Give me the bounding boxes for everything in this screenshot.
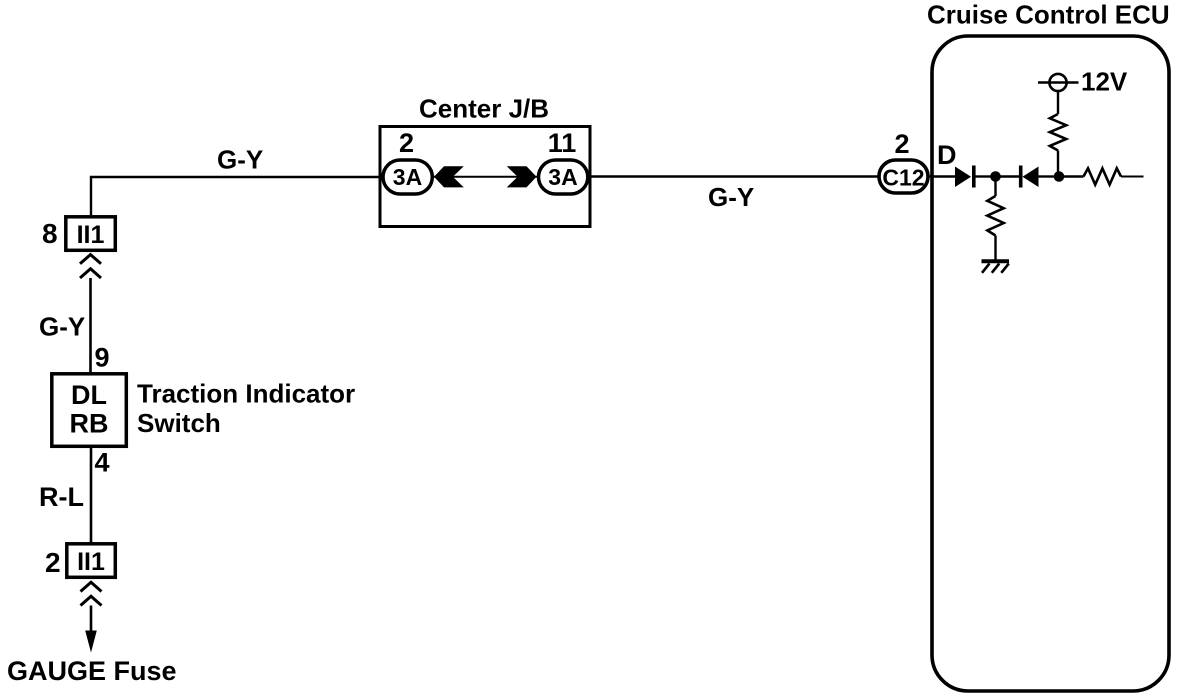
wire 12V to resistor R1 bbox=[1057, 91, 1059, 114]
diode D2 (cathode left) bbox=[1021, 166, 1039, 188]
svg-text:8: 8 bbox=[42, 218, 58, 249]
Center J/B box bbox=[380, 127, 590, 227]
svg-text:R-L: R-L bbox=[39, 482, 84, 512]
diode D1 (anode left) bbox=[955, 166, 974, 188]
wire G-Y chevrons to switch bbox=[89, 278, 92, 373]
wire resistor R1 to node B bbox=[1057, 151, 1059, 177]
wire resistor R3 to ground bbox=[994, 236, 996, 261]
svg-text:3A: 3A bbox=[393, 164, 422, 190]
ground bbox=[982, 261, 1010, 273]
wire G-Y from pin 8 to Center J/B bbox=[91, 177, 382, 215]
wire to GAUGE fuse bbox=[90, 606, 93, 641]
Cruise Control ECU box bbox=[932, 36, 1169, 691]
wire R-L switch to pin 2 connector bbox=[90, 446, 93, 543]
svg-text:G-Y: G-Y bbox=[39, 312, 85, 342]
label Traction Indicator Switch bbox=[137, 379, 355, 439]
connector II1 pin 2 bbox=[45, 544, 115, 578]
resistor R1 vertical bbox=[1050, 114, 1066, 151]
wire diode D2 to node B bbox=[1039, 175, 1055, 177]
svg-text:Cruise Control ECU: Cruise Control ECU bbox=[927, 0, 1170, 30]
svg-text:Traction Indicator: Traction Indicator bbox=[137, 379, 355, 409]
svg-text:3A: 3A bbox=[548, 164, 577, 190]
svg-text:2: 2 bbox=[399, 128, 414, 158]
svg-text:D: D bbox=[937, 140, 957, 170]
splice chevrons below pin 8 bbox=[80, 255, 101, 278]
resistor R2 horizontal bbox=[1084, 168, 1122, 184]
arrow right (into pin 11) bbox=[507, 166, 537, 187]
wire stub right of R2 bbox=[1121, 176, 1144, 178]
connector 3A pin 2 bbox=[383, 128, 432, 194]
svg-text:12V: 12V bbox=[1081, 67, 1128, 97]
12V supply symbol bbox=[1038, 67, 1128, 97]
svg-text:G-Y: G-Y bbox=[708, 182, 754, 212]
wire node B to resistor R2 bbox=[1064, 175, 1084, 177]
wire node A to diode D2 bbox=[1000, 175, 1019, 177]
svg-text:GAUGE Fuse: GAUGE Fuse bbox=[7, 656, 177, 686]
arrow left (into pin 2) bbox=[434, 166, 464, 187]
svg-text:II1: II1 bbox=[77, 548, 105, 576]
svg-text:4: 4 bbox=[95, 448, 110, 478]
wire node A to resistor R3 bbox=[994, 181, 996, 196]
svg-text:Switch: Switch bbox=[137, 408, 221, 438]
wire between junction block arrows bbox=[434, 176, 537, 178]
svg-text:2: 2 bbox=[45, 547, 61, 578]
splice chevrons below pin 2 bbox=[81, 582, 102, 605]
svg-text:Center J/B: Center J/B bbox=[419, 94, 549, 124]
arrowhead to GAUGE fuse bbox=[85, 631, 97, 653]
resistor R3 vertical bbox=[987, 196, 1003, 236]
svg-text:11: 11 bbox=[548, 128, 577, 158]
svg-text:C12: C12 bbox=[882, 165, 924, 191]
node B junction bbox=[1054, 171, 1065, 182]
connector C12 pin 2 bbox=[879, 129, 928, 193]
wire G-Y from Center J/B to C12 bbox=[588, 175, 878, 177]
wire C12 to diode bbox=[928, 175, 955, 177]
node A junction bbox=[990, 171, 1001, 182]
connector 3A pin 11 bbox=[539, 128, 588, 194]
svg-text:DL: DL bbox=[71, 380, 107, 410]
switch DL RB (Traction Indicator Switch) bbox=[52, 374, 127, 447]
wire diode to node A bbox=[975, 175, 991, 177]
svg-text:II1: II1 bbox=[77, 221, 105, 249]
svg-text:9: 9 bbox=[95, 343, 110, 373]
svg-text:RB: RB bbox=[70, 409, 109, 439]
svg-text:2: 2 bbox=[894, 129, 909, 159]
connector II1 pin 8 bbox=[42, 217, 115, 251]
svg-text:G-Y: G-Y bbox=[217, 145, 263, 175]
